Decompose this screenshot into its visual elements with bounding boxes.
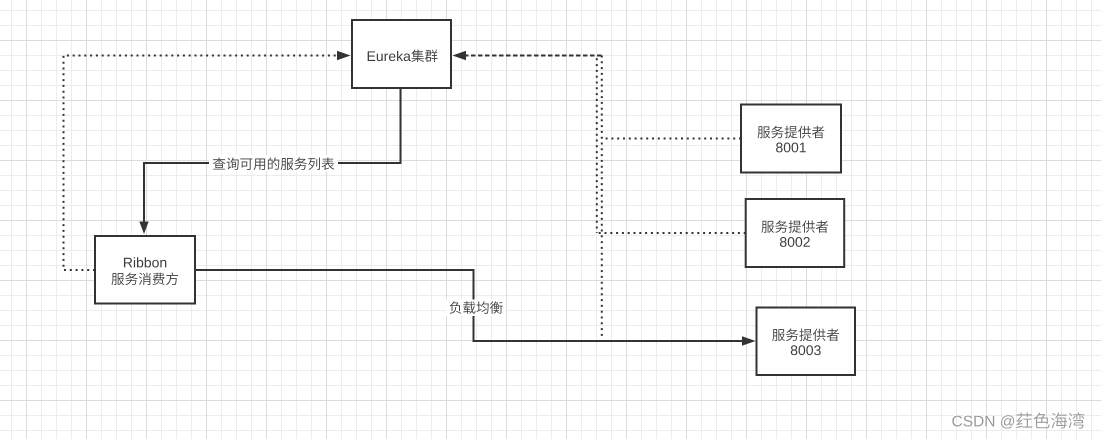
label 负载均衡 xyxy=(446,300,506,317)
wire dotted vertical from 8002 junction up to Eureka line xyxy=(596,56,598,234)
node Eureka集群 box xyxy=(352,20,451,88)
wire solid Ribbon→8003 (load balance) xyxy=(195,270,743,341)
arrowhead into 8003 left xyxy=(742,336,756,345)
wire dotted vertical from 8003 line up to Eureka line xyxy=(601,56,603,337)
node 服务提供者 8001 box xyxy=(741,105,841,173)
label 服务提供者 8001 xyxy=(757,126,824,138)
arrowhead into Eureka right xyxy=(453,51,467,60)
wire dashed into Eureka right side xyxy=(466,55,602,57)
label Eureka集群 xyxy=(368,51,411,61)
label 服务提供者 8002 xyxy=(761,220,828,232)
node Ribbon 服务消费方 box xyxy=(95,236,195,304)
watermark CSDN @荭色海湾 xyxy=(952,414,1014,427)
wire dotted 8001 to vertical xyxy=(602,138,741,140)
wire dotted 8002 to vertical xyxy=(597,232,746,234)
label 查询可用的服务列表 xyxy=(209,155,338,172)
arrowhead into Eureka left xyxy=(337,51,351,60)
label 服务提供者 8003 xyxy=(772,329,839,341)
node 服务提供者 8003 box xyxy=(757,308,856,376)
arrowhead into Ribbon top xyxy=(139,222,148,235)
label Ribbon xyxy=(124,257,166,267)
node 服务提供者 8002 box xyxy=(746,199,845,267)
wire dotted Ribbon→Eureka xyxy=(64,56,338,271)
label 服务消费方 xyxy=(111,273,178,286)
wire solid Eureka→Ribbon (query service list) xyxy=(144,89,401,223)
